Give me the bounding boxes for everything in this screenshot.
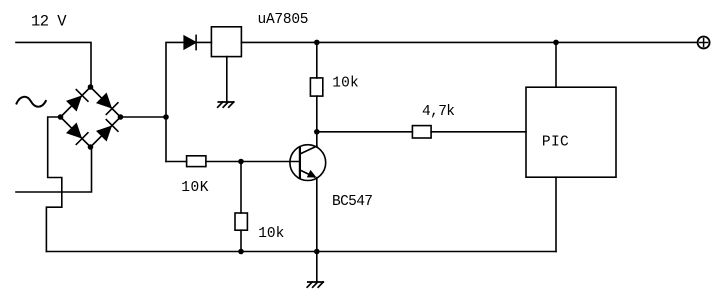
wire: 12V input from left edge to bridge top vertex — [16, 42, 91, 87]
svg-text:4,7k: 4,7k — [422, 104, 455, 120]
wire: regulator ground pin down — [226, 57, 228, 102]
wire: top rail down to 10k collector resistor — [316, 42, 318, 78]
node: bridge right vertex — [118, 114, 124, 120]
IC PIC (box) — [526, 87, 616, 177]
wire: bridge left vertex zigzag down to bottom rail — [46, 117, 61, 252]
wire: base junction to transistor base — [241, 161, 300, 163]
node: base junction — [238, 159, 244, 165]
node: top rail junction at 10k resistor — [314, 40, 320, 46]
resistor 4,7k (horizontal box) — [412, 126, 431, 138]
wire: 4,7k to PIC input — [431, 131, 526, 133]
ground symbol (under regulator) — [218, 102, 234, 107]
svg-text:10k: 10k — [332, 76, 358, 92]
diode bridge bottom-right (anode bottom vertex, cathode right vertex) — [96, 120, 118, 142]
wire: emitter lead down to bottom rail — [316, 178, 318, 252]
diode bridge bottom-left (anode left vertex, cathode bottom vertex) — [66, 123, 88, 145]
diode D1 (series, before regulator) — [184, 35, 196, 49]
wire: resistor bottom to collector node — [316, 96, 318, 132]
wire: base resistor to base junction — [206, 161, 241, 163]
wire: diode cathode to regulator input — [196, 41, 211, 43]
node: riser junction — [163, 114, 169, 120]
node: bridge left vertex — [58, 114, 64, 120]
ground symbol (bottom) — [307, 282, 323, 287]
wire: riser branch to base resistor — [166, 161, 187, 163]
wire: rail junction down to ground — [316, 252, 318, 283]
wire: bottom ground rail — [46, 251, 556, 253]
wire: top +5V rail from regulator output to output terminal — [241, 41, 697, 43]
AC source symbol (~) — [17, 97, 46, 107]
node: pull-down to rail junction — [238, 249, 244, 255]
output terminal (+) — [698, 37, 710, 49]
svg-text:10k: 10k — [258, 226, 284, 242]
node: top rail junction at PIC supply — [553, 40, 559, 46]
resistor 10K (base series, horizontal box) — [187, 156, 206, 167]
wire: bottom rail up to PIC bottom pin — [555, 177, 557, 251]
resistor 10k (base pull-down, vertical box) — [235, 213, 247, 230]
wire: collector node to 4,7k resistor — [317, 131, 413, 133]
node: bridge bottom vertex — [88, 144, 94, 150]
svg-text:12 V: 12 V — [31, 13, 67, 31]
resistor 10k (collector pull-up, vertical box) — [310, 78, 322, 96]
wire: base junction down to pull-down resistor — [240, 162, 242, 214]
node: collector junction — [314, 129, 320, 135]
node: bridge top vertex — [88, 84, 94, 90]
wire: AC input from left edge to bridge bottom vertex — [16, 147, 92, 192]
svg-text:BC547: BC547 — [332, 194, 373, 210]
diode bridge top-left (anode left vertex, cathode top vertex) — [66, 90, 88, 112]
bridge rectifier frame (diamond) — [61, 87, 121, 147]
transistor Q1 BC547 — [290, 145, 326, 181]
wire: pull-down resistor to bottom rail — [240, 230, 242, 251]
svg-text:uA7805: uA7805 — [258, 12, 309, 28]
diode bridge top-right (anode top vertex, cathode right vertex) — [96, 93, 118, 115]
wire: top rail to PIC top pin — [555, 42, 557, 87]
svg-text:10K: 10K — [181, 180, 209, 196]
wire: collector lead — [316, 132, 318, 146]
regulator U1 uA7805 (box) — [211, 27, 241, 57]
wire: bridge right vertex to riser junction — [121, 116, 167, 118]
svg-text:PIC: PIC — [542, 135, 569, 151]
wire: riser from base branch up to top rail — [166, 42, 184, 161]
node: emitter/ground junction — [314, 249, 320, 255]
